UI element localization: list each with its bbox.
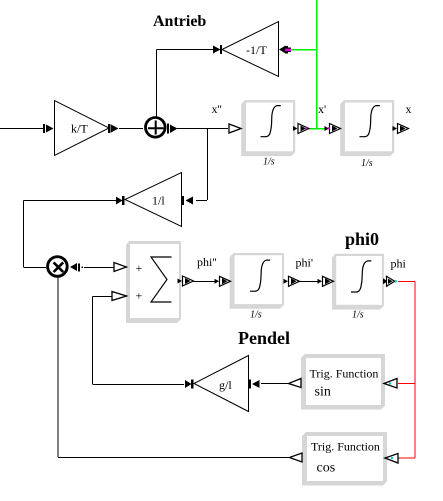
- integrator block I1 (x'' to x'): [241, 100, 295, 167]
- green wire: x' node to -1/T input: [291, 0, 328, 129]
- wire: I3 to I4: [300, 281, 319, 283]
- port: I2 output: [393, 124, 409, 134]
- svg-text:1/s: 1/s: [250, 310, 262, 321]
- wire: g/l loop to sum input 2: [93, 297, 185, 385]
- svg-text:-1/T: -1/T: [246, 43, 267, 57]
- port: I2 input: [325, 124, 341, 134]
- port: I1 input: [229, 124, 241, 133]
- sum circle S1: [146, 118, 166, 138]
- trig function cos block: [302, 432, 387, 486]
- cyan junction dot: [395, 280, 397, 282]
- svg-text:x: x: [406, 102, 412, 116]
- svg-text:phi'': phi'': [197, 255, 217, 269]
- wire: input to k/T gain: [0, 128, 43, 130]
- port marker: g/l tip: [185, 380, 194, 389]
- trig function sin block: [301, 354, 385, 410]
- port marker: g/l input (right side): [249, 380, 260, 389]
- port: cos input hollow arrow (right): [385, 454, 398, 464]
- integrator block I4 (phi' to phi): [332, 254, 384, 321]
- magenta endpoint handles of selected green wire: [285, 49, 291, 51]
- wire: product circle to sum block input 1: [84, 267, 114, 269]
- port marker: -1/T input (right side) with magenta: [279, 46, 291, 54]
- svg-text:1/s: 1/s: [263, 157, 275, 168]
- svg-text:1/l: 1/l: [152, 194, 165, 208]
- svg-text:+: +: [136, 289, 143, 303]
- svg-text:Trig. Function: Trig. Function: [310, 367, 379, 381]
- port: cos output hollow arrow (left): [290, 453, 303, 462]
- integrator block I3 (phi'' to phi'): [230, 253, 284, 321]
- port: I3 input: [215, 276, 231, 286]
- svg-text:Antrieb: Antrieb: [153, 13, 206, 30]
- port: sin output hollow arrow (left): [289, 379, 302, 388]
- port: I1 output: [293, 124, 309, 134]
- svg-text:sin: sin: [315, 385, 331, 400]
- port: sum input 2 hollow arrow: [112, 292, 127, 301]
- port marker: product circle right (arrow pointing into circle): [70, 263, 83, 272]
- port: sum input 1 hollow arrow: [114, 263, 127, 272]
- svg-text:Pendel: Pendel: [238, 328, 290, 348]
- port: I4 output: [383, 276, 395, 286]
- gain g/l: [194, 356, 249, 412]
- wire: cos output up into product circle bottom: [58, 277, 289, 458]
- svg-text:Trig. Function: Trig. Function: [311, 440, 380, 454]
- wire: 1/l output to product circle: [24, 201, 117, 268]
- port: sum output: [178, 276, 194, 286]
- svg-text:g/l: g/l: [219, 378, 232, 392]
- wire: k/T to sum circle: [119, 128, 143, 130]
- gain 1/l: [125, 173, 182, 227]
- wire: feedback sum circle top to -1/T tip: [156, 50, 213, 118]
- svg-text:1/s: 1/s: [352, 310, 364, 321]
- sum block (Sigma) with shadow: [126, 241, 181, 323]
- port marker: k/T output tip: [108, 124, 119, 133]
- port marker: k/T input: [43, 124, 54, 133]
- svg-text:phi: phi: [391, 257, 407, 271]
- wire: sin to g/l: [261, 383, 288, 385]
- integrator block I2 (x' to x): [340, 100, 394, 169]
- port: sin input hollow arrow (right): [384, 379, 397, 389]
- port: I4 input: [318, 276, 334, 286]
- wire: sum output to integrator3: [194, 281, 219, 283]
- svg-text:phi0: phi0: [345, 229, 379, 249]
- svg-text:phi': phi': [296, 256, 314, 270]
- port marker: -1/T tip: [213, 45, 222, 54]
- wire: sum circle to integrator1, node at x=207: [177, 129, 228, 201]
- port marker: 1/l output tip: [116, 196, 125, 205]
- red wire: phi to trig blocks: [398, 282, 415, 459]
- port marker: sum circle output: [167, 124, 178, 134]
- product circle X1: [48, 257, 68, 277]
- port marker: 1/l gain input (right side): [182, 196, 193, 205]
- svg-text:x': x': [318, 102, 326, 116]
- svg-text:k/T: k/T: [71, 122, 88, 136]
- svg-text:x'': x'': [212, 102, 222, 116]
- gain -1/T: [222, 22, 279, 77]
- port: I3 output: [284, 276, 300, 286]
- gain k/T: [55, 101, 110, 156]
- svg-text:+: +: [136, 261, 143, 275]
- svg-text:cos: cos: [317, 461, 336, 476]
- svg-text:1/s: 1/s: [361, 158, 373, 169]
